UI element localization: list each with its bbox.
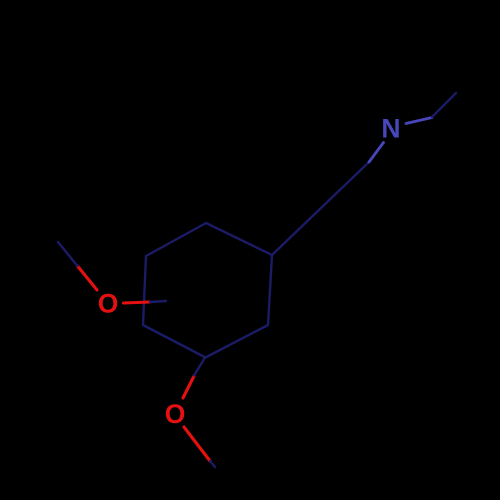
svg-text:O: O [165, 399, 186, 429]
svg-text:O: O [98, 289, 119, 319]
bond N-CH2 (methyl, shallow) [406, 118, 432, 124]
wire ring edge B-LL [143, 325, 206, 358]
bond chain ring-CH2 [272, 162, 369, 255]
bond CH2-N [369, 143, 384, 163]
wire ring edge LL-UL [143, 256, 146, 325]
wire ring edge UL-T [146, 223, 206, 256]
bond CH2-CH3 (steep) [432, 93, 456, 117]
bond O1-CH3 (red half) [78, 266, 98, 290]
bond O2-CH3 (red half) [184, 427, 210, 461]
bond O1-CH3 (dark half) [58, 242, 78, 266]
wire ring edge LR-B [206, 325, 269, 358]
bond O2-CH3 (dark half) [210, 461, 215, 467]
bond O1-ring (red half) [124, 302, 151, 303]
bond O2-ring (red half) [183, 376, 194, 398]
svg-text:N: N [381, 114, 400, 144]
bond O2-ring (dark half) [194, 358, 205, 376]
benzene ring [143, 223, 272, 358]
wire ring edge UR-LR [268, 255, 272, 325]
bond O1-ring (dark half) [150, 301, 166, 302]
wire ring edge T-UR [206, 223, 272, 255]
